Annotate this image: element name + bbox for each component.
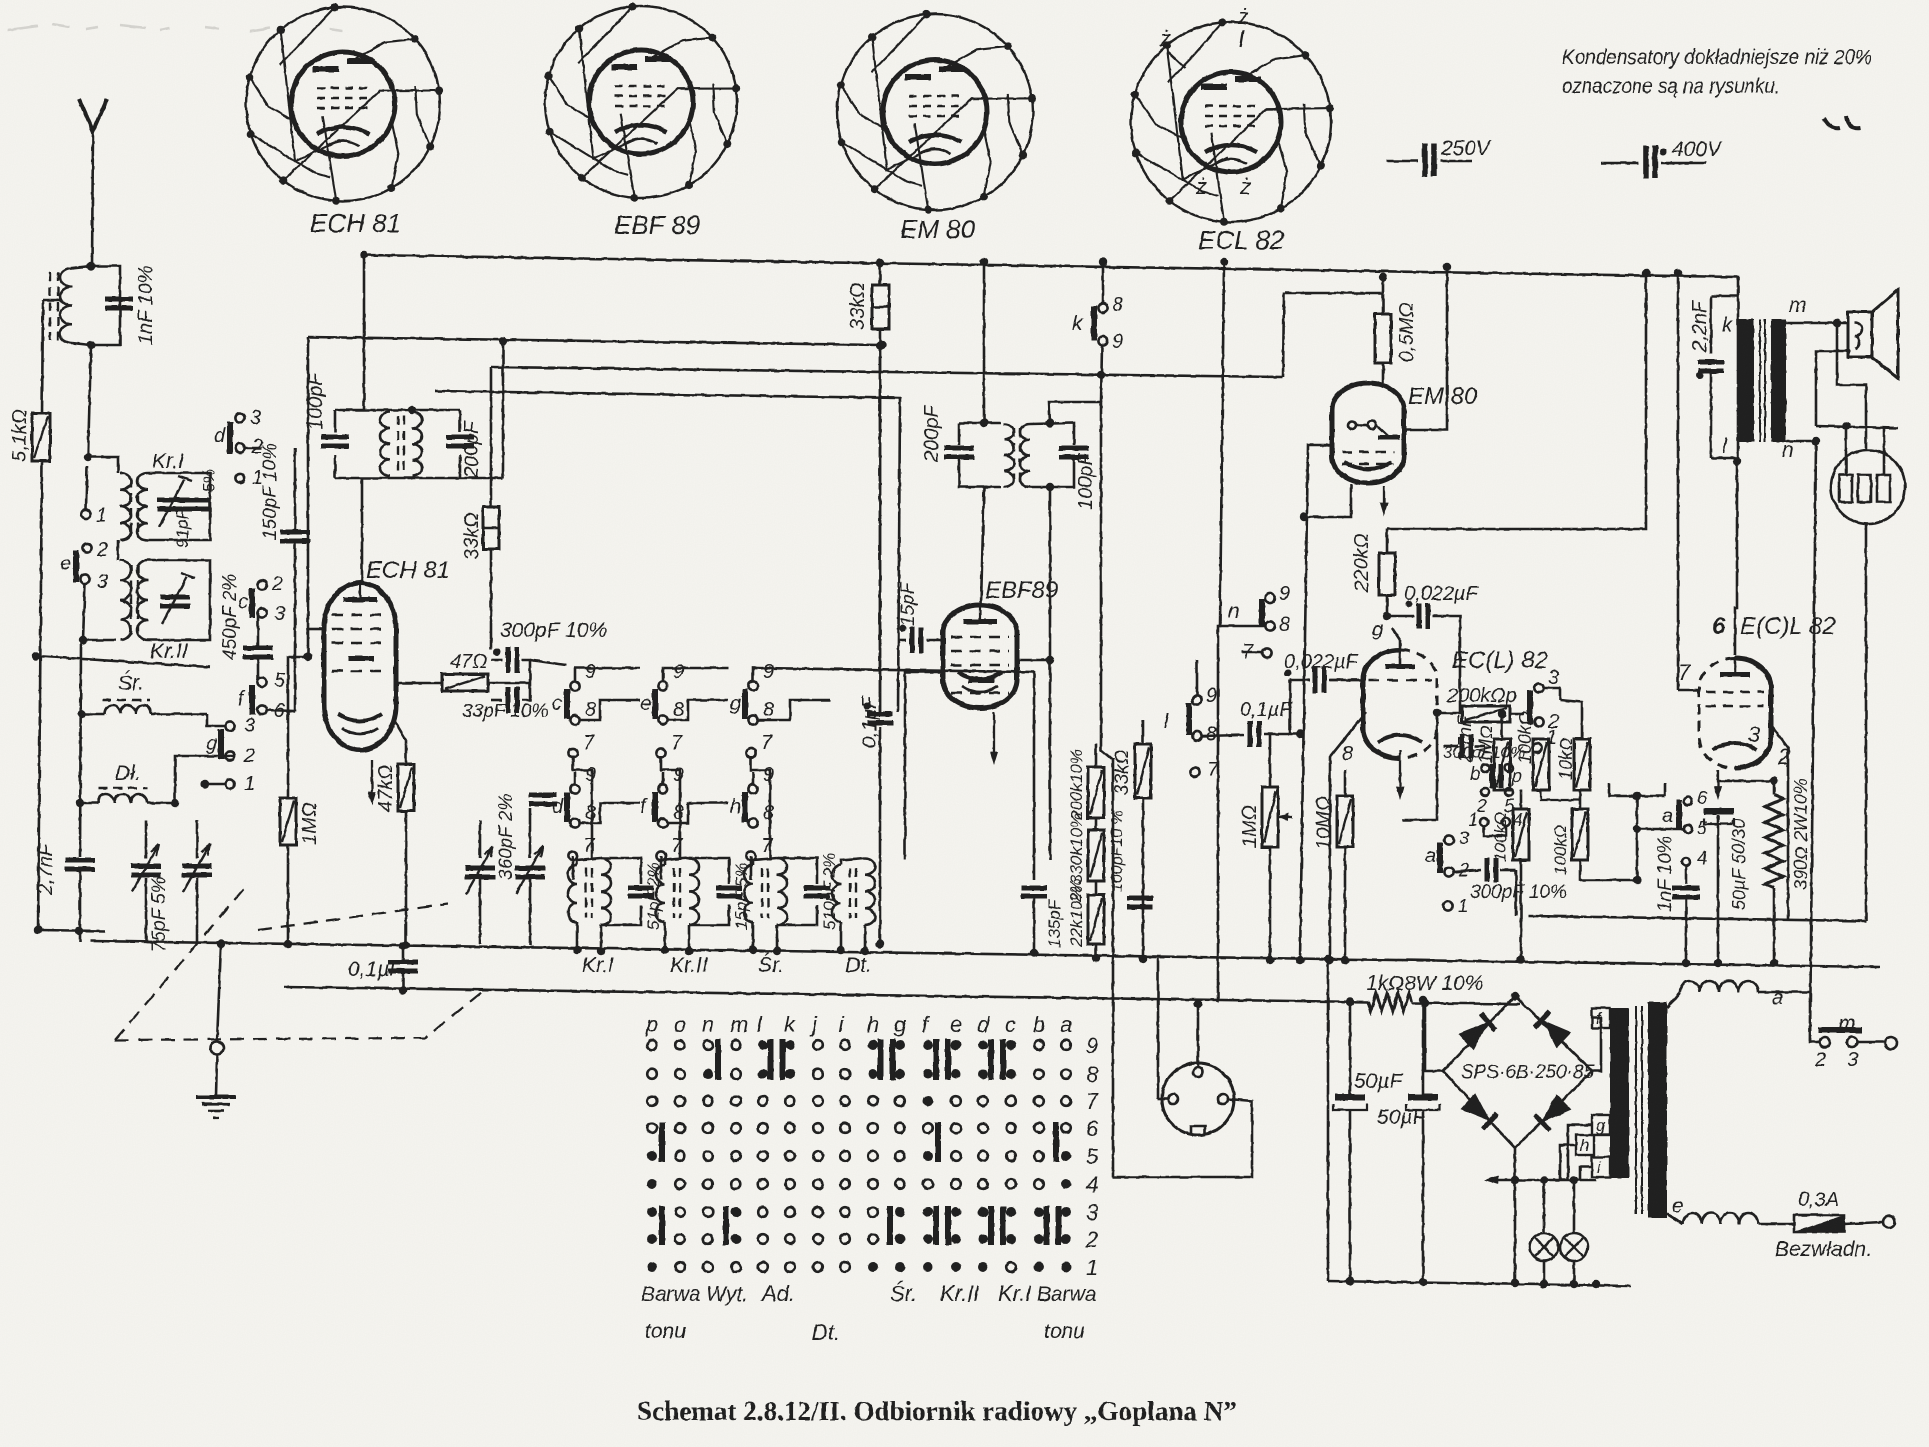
left vertical feeds [81, 713, 84, 716]
IF coil Sr. bottom [744, 865, 753, 922]
legend note text [1562, 46, 1872, 98]
ground lead and symbol [196, 940, 236, 1118]
tube socket EM 80 [837, 10, 1036, 244]
pickup connector [1816, 422, 1905, 921]
power bottom bus [1328, 1281, 1631, 1286]
antenna coil L1 with core [50, 262, 120, 349]
switch n [1218, 583, 1290, 663]
capacitor 2.7nF [35, 642, 95, 942]
coil Sr. [78, 671, 225, 726]
EBF89 anode arrow [993, 712, 995, 761]
capacitor 15pF [898, 581, 944, 653]
electrolytic 50uF a [1333, 998, 1403, 1281]
link wires 8-row [579, 700, 640, 720]
resistor 47k with AVC arrow [368, 720, 414, 949]
legend capacitor 400V [1601, 138, 1723, 179]
antenna [79, 99, 107, 266]
resistor 33k top [847, 259, 889, 713]
resistor 100k upper [1515, 711, 1549, 790]
resistor 10M [1313, 770, 1353, 964]
capacitor 33pF 10% [462, 683, 548, 722]
capacitor 1nF 10% [1655, 836, 1707, 967]
tuning capacitor section 2 with 360pF [465, 793, 557, 946]
capacitor 0.022uF grid [1284, 651, 1363, 693]
wires EBF89 region [905, 656, 1054, 860]
switch l [1164, 660, 1219, 781]
coil Dl. [76, 756, 234, 807]
resistor 1M right [1476, 710, 1510, 790]
resistor 100k lower-left [1491, 790, 1529, 964]
resistor 220k [1351, 533, 1395, 620]
tube EBF89 [943, 577, 1058, 708]
main tuning capacitor section 1 [131, 820, 212, 952]
link wires 7-row to coils [573, 756, 592, 860]
resistor 33k at switch l [1112, 720, 1151, 963]
resistor 10k [1556, 700, 1590, 790]
matrix labels [641, 1281, 1097, 1345]
mains secondary bottom + fuse 0.3A [1667, 1189, 1895, 1261]
bridge to transformer wires [1484, 1018, 1601, 1285]
switch g left contacts 3-2-1 [201, 715, 255, 795]
resistor 33k second [461, 367, 499, 650]
Kr.I tuned box with trimmer 91pF and 5% [148, 469, 218, 548]
capacitor 0.1uF lower left [348, 942, 418, 994]
resistor 1M pot [1239, 734, 1292, 964]
switch d [214, 407, 263, 489]
DIN connector [1113, 958, 1252, 1177]
coil Kr.II [118, 540, 188, 663]
vertical feeds mid-right [1113, 258, 1284, 1177]
switch e [60, 539, 116, 644]
ground bus second / rectifier feed [284, 987, 1368, 1002]
resistor 0.5M [1375, 273, 1418, 383]
coil Kr.I primary [118, 450, 184, 540]
capacitor 2.2nF [1689, 296, 1738, 458]
tube EM80 [1332, 383, 1478, 516]
resistor 5.1k [9, 300, 105, 935]
switch matrix [645, 1012, 1099, 1280]
electrolytic 50uF 50/30 [1704, 808, 1749, 910]
loudspeaker [1816, 290, 1898, 449]
tube ECH81 [324, 478, 450, 750]
switch g mid [748, 681, 757, 690]
IF coil Kr.I bottom [568, 865, 577, 922]
E(C)L82 wires [1674, 269, 1788, 967]
ground bus main [90, 941, 1880, 967]
switch m mains [1758, 992, 1897, 1071]
Kr.II tuned box with trimmer [32, 560, 210, 667]
wire to Kr.I [88, 457, 118, 470]
IF coil Kr.II bottom [656, 865, 665, 922]
contacts 1-4 [1468, 810, 1523, 836]
capacitor 2.7nF [1443, 715, 1485, 763]
wire antenna coil to tuner [88, 345, 91, 457]
vertical from bus to power bus [1324, 955, 1332, 1281]
capacitor 300pF 10% [491, 619, 607, 683]
capacitor 300pF 10% upper [1443, 743, 1525, 816]
scan smudges top left [8, 24, 342, 31]
bus third [491, 367, 1283, 377]
bus second [308, 337, 882, 345]
switch a right [1637, 788, 1708, 838]
contact 1 [81, 509, 90, 518]
capacitor 0.022uF top [1387, 583, 1480, 713]
wire EM80 top left [1285, 292, 1383, 295]
capacitor 300pF 10% lower [1453, 858, 1567, 903]
capacitor 510pF 2% / 135pF 2% [1021, 879, 1085, 957]
dashed gang coupling [115, 884, 487, 1040]
electrolytic 50uF b [1377, 996, 1440, 1281]
bus B+ top [364, 255, 1738, 319]
resistor 390ohm 2W [1718, 777, 1811, 967]
link wires 9-row [575, 668, 640, 681]
IF transformer 1 100pF/200pF [305, 251, 507, 479]
transformer taps f g h i [1576, 1008, 1610, 1177]
resistor 200k p and switch [1437, 667, 1560, 753]
output transformer [1722, 294, 1848, 465]
switch c [570, 681, 579, 690]
dial lamps [1530, 1176, 1588, 1288]
link wires lower switches [574, 772, 577, 784]
switch d mid [570, 784, 579, 793]
switch h mid [748, 784, 757, 793]
power transformer core [1610, 1002, 1667, 1218]
legend capacitor 250V [1386, 137, 1492, 177]
capacitor 0.1uF at l [1201, 680, 1300, 747]
tube E(C)L82 [1678, 613, 1836, 769]
bus fourth [435, 391, 900, 712]
capacitor 450pF 2% [220, 574, 273, 680]
switch k [1072, 258, 1123, 402]
IF transformer 2 200pF/100pF [921, 258, 1113, 860]
resistor 100k lower-right [1551, 790, 1588, 875]
speaker field vertical [1810, 441, 1816, 1041]
resistor 47ohm [394, 651, 530, 691]
switch f left [238, 670, 295, 722]
switch a mid [1425, 828, 1469, 916]
switch f mid [658, 784, 667, 793]
tube socket ECH 81 [246, 3, 443, 238]
tube socket ECL 82 [1131, 4, 1334, 255]
wires EM80 [1296, 263, 1650, 964]
stray pen mark [1824, 116, 1860, 128]
switch e mid [658, 681, 667, 690]
resistor 1M [280, 798, 321, 948]
capacitor 0.1uF at EBF89 [859, 346, 893, 948]
ECH81 grid wires [288, 337, 324, 798]
capacitor 1nF 10% [105, 265, 157, 345]
capacitor 100pF 10% [1109, 810, 1153, 909]
mains secondary top [1667, 981, 1783, 1009]
capacitor 150pF 10% [260, 443, 310, 711]
bias network wires [1402, 709, 1866, 921]
resistor column 200k 330k 22k [1067, 744, 1104, 962]
switch c left [238, 573, 285, 625]
tube socket EBF 89 [545, 2, 740, 240]
bridge rectifier SPS-6B-250-85 [1443, 992, 1595, 1148]
tube EC(L)82 [1326, 619, 1548, 964]
resistor 1k 8W 10% mains feed [1368, 993, 1412, 1011]
IF coil Dt. bottom [832, 858, 875, 977]
